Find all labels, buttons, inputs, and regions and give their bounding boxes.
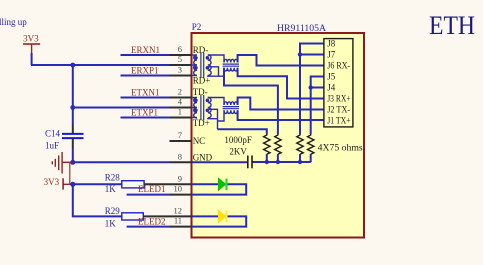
wire J4 stub xyxy=(311,87,324,89)
pin 11 xyxy=(170,216,192,227)
svg-text:12: 12 xyxy=(174,205,183,215)
junction J4 xyxy=(309,85,313,89)
wire termination rail xyxy=(252,161,311,163)
svg-text:ERXP1: ERXP1 xyxy=(131,66,159,76)
wire ETXP1 xyxy=(121,117,170,119)
wire TD tap to R75-1 xyxy=(218,129,267,134)
wire GND node to pin 8 xyxy=(73,161,170,163)
wire RD secondary top to T2-RD xyxy=(208,55,224,63)
svg-text:ELED2: ELED2 xyxy=(138,217,166,227)
svg-text:J5: J5 xyxy=(327,72,336,82)
wire T2-RD bottom-left to R75-2 xyxy=(224,68,278,134)
wire TD center tap xyxy=(208,109,218,129)
wire RD center tap xyxy=(208,67,219,76)
svg-text:TD-: TD- xyxy=(193,87,208,97)
pin 12 xyxy=(143,205,191,216)
resistor R75-1 xyxy=(264,134,270,154)
svg-text:J6 RX-: J6 RX- xyxy=(327,61,350,71)
RJ45 jack pin block xyxy=(324,39,353,127)
junction node GND xyxy=(70,160,75,165)
wire ERXP1 xyxy=(121,75,170,77)
svg-text:3V3: 3V3 xyxy=(23,33,39,43)
svg-text:ETXN1: ETXN1 xyxy=(131,88,160,98)
transformer T2-TD (horizontal) xyxy=(223,102,239,114)
svg-text:7: 7 xyxy=(178,130,182,140)
svg-text:1K: 1K xyxy=(105,218,117,228)
transformer T2-RD (horizontal) xyxy=(223,59,239,71)
svg-text:J1 TX+: J1 TX+ xyxy=(327,116,351,126)
junction rail R75-2 xyxy=(276,160,280,164)
svg-text:lling up: lling up xyxy=(0,17,27,27)
svg-text:9: 9 xyxy=(178,173,182,183)
svg-text:J3 RX+: J3 RX+ xyxy=(327,94,351,104)
pin 6 xyxy=(170,44,192,55)
wire LED2 loop (pins 12-11) xyxy=(192,216,247,226)
wire J5/J4 to R75-4 xyxy=(311,77,324,135)
wire T2-TD bottom-left step xyxy=(218,110,225,121)
pin 5 xyxy=(170,54,192,65)
wire T2-TD top to J2 TX- xyxy=(238,98,324,110)
transformer T-RD choke (pins 6/5/3) xyxy=(192,53,212,78)
wire node down to R29 xyxy=(73,184,122,216)
wire vertical 3V3 rail down to C14 xyxy=(72,65,74,124)
power port 3V3 (top) xyxy=(23,33,40,53)
resistor R29 xyxy=(122,213,144,220)
svg-text:1: 1 xyxy=(178,107,182,117)
pin 10 xyxy=(170,184,192,195)
wire ELED1 xyxy=(127,194,170,196)
LED D-green xyxy=(218,177,228,191)
svg-text:J4: J4 xyxy=(327,83,336,93)
wire ERXN1 xyxy=(121,54,170,56)
svg-text:NC: NC xyxy=(193,136,206,146)
svg-text:6: 6 xyxy=(178,44,182,54)
svg-text:J7: J7 xyxy=(327,50,336,60)
junction node pin4 tap xyxy=(70,105,75,110)
resistor R75-3 xyxy=(297,134,303,154)
pin 2 xyxy=(170,87,192,98)
wire RD secondary bottom xyxy=(208,75,224,78)
svg-text:C14: C14 xyxy=(45,129,61,139)
pin 9 xyxy=(144,173,191,184)
ground symbol xyxy=(52,152,71,184)
svg-text:R28: R28 xyxy=(105,173,121,183)
wire TD secondary top to T2-TD xyxy=(208,98,224,106)
svg-text:3: 3 xyxy=(178,65,182,75)
pin 7 xyxy=(170,130,192,141)
pin 1 xyxy=(170,107,192,118)
junction rail R75-3 xyxy=(298,160,302,164)
resistor R75-4 xyxy=(308,134,314,154)
svg-text:1K: 1K xyxy=(105,184,117,194)
svg-text:10: 10 xyxy=(174,184,183,194)
junction node 3V3/pin5 xyxy=(70,63,75,68)
junction rail R75-1 xyxy=(265,160,269,164)
pin 3 xyxy=(170,65,192,76)
wire node to R28 xyxy=(73,183,122,185)
wire junction to pin 4 xyxy=(73,107,170,109)
wire J8/J7 to R75-3 xyxy=(300,44,324,135)
LED D-yellow xyxy=(218,209,228,223)
svg-text:ERXN1: ERXN1 xyxy=(131,45,160,55)
wire J7 stub xyxy=(300,54,324,56)
wire LED1 loop (pins 9-10) xyxy=(192,184,247,194)
svg-text:ETH: ETH xyxy=(429,11,475,40)
resistor R75-2 xyxy=(275,134,281,154)
resistor R28 xyxy=(122,181,144,188)
wire T2-RD top to J6 RX- xyxy=(238,55,324,66)
svg-text:2KV: 2KV xyxy=(229,147,247,157)
svg-text:J8: J8 xyxy=(327,39,336,49)
wire C14 to GND node xyxy=(72,149,74,163)
wire T2-TD bottom to J1 TX+ xyxy=(238,110,324,120)
junction node 3V3 LED rail xyxy=(70,182,75,187)
svg-text:GND: GND xyxy=(193,153,213,163)
svg-text:3V3: 3V3 xyxy=(44,177,60,187)
wire ELED2 xyxy=(127,226,170,228)
svg-text:5: 5 xyxy=(178,54,182,64)
svg-text:ELED1: ELED1 xyxy=(138,184,166,194)
svg-text:HR911105A: HR911105A xyxy=(277,23,327,33)
svg-text:P2: P2 xyxy=(192,22,202,32)
T-TD polarity dots xyxy=(194,99,209,113)
svg-text:ETXP1: ETXP1 xyxy=(131,108,158,118)
power port 3V3 (lower) xyxy=(44,177,72,190)
svg-text:R29: R29 xyxy=(105,206,121,216)
svg-text:11: 11 xyxy=(174,216,182,226)
wire GND to cap xyxy=(192,161,248,163)
svg-text:8: 8 xyxy=(178,151,182,161)
wire 3V3 stem blue xyxy=(31,53,33,65)
T-RD polarity dots xyxy=(194,56,209,70)
pin 4 xyxy=(170,97,192,108)
svg-text:2: 2 xyxy=(178,87,182,97)
svg-text:J2 TX-: J2 TX- xyxy=(327,105,350,115)
svg-text:1000pF: 1000pF xyxy=(224,135,252,145)
junction J7 xyxy=(298,52,302,56)
wire TD secondary bottom xyxy=(208,117,218,120)
wire 3V3 to pin 5 xyxy=(31,64,170,66)
wire T2-RD bottom to J3 RX+ xyxy=(238,68,324,99)
transformer T-TD choke (pins 2/4/1) xyxy=(192,95,212,120)
svg-text:4X75 ohms: 4X75 ohms xyxy=(318,143,364,153)
capacitor 1000pF 2KV xyxy=(248,156,252,169)
wire ETXN1 xyxy=(121,97,170,99)
svg-text:1uF: 1uF xyxy=(45,141,59,151)
component P2 body (HR911105A) xyxy=(192,33,365,238)
capacitor C14 xyxy=(62,124,84,149)
pin 8 xyxy=(170,151,192,162)
